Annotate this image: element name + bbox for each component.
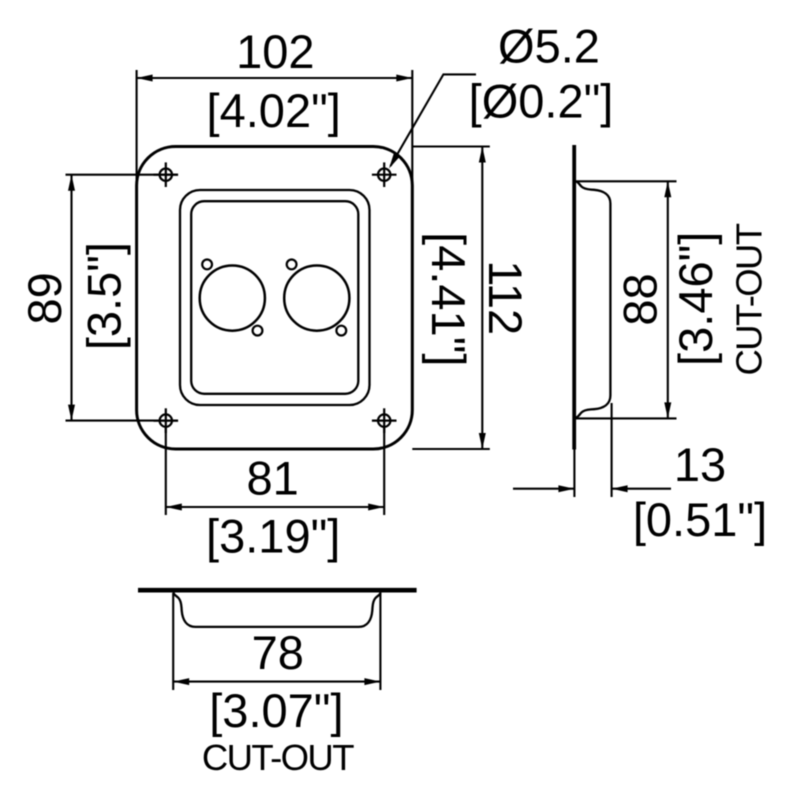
bottom view dish profile — [173, 593, 380, 627]
D-hole right small hole bottom-right — [336, 326, 346, 336]
leader arrow — [389, 153, 400, 169]
svg-text:88: 88 — [614, 273, 667, 325]
D-hole right — [284, 266, 349, 331]
svg-text:[3.46"]: [3.46"] — [669, 232, 722, 366]
svg-text:[4.41"]: [4.41"] — [422, 232, 475, 366]
dimension 81 arrow right — [368, 504, 384, 511]
dimension 78 extension line left — [172, 593, 174, 690]
dimension 89 extension line bottom — [66, 420, 179, 422]
screw hole top-right — [372, 162, 397, 187]
dimension 13 line right part — [612, 488, 671, 490]
svg-text:[Ø0.2"]: [Ø0.2"] — [469, 75, 614, 128]
dimension 13 line left part — [513, 488, 574, 490]
dimension 112 arrow top — [479, 147, 486, 163]
side view dish profile — [576, 182, 610, 418]
svg-text:CUT-OUT: CUT-OUT — [202, 737, 354, 778]
svg-text:102: 102 — [236, 25, 314, 78]
screw hole bottom-right — [372, 408, 397, 433]
D-hole left small hole top-left — [202, 260, 212, 270]
dimension 81 line — [166, 506, 384, 508]
side view flange line — [572, 145, 576, 450]
dimension 89 arrow top — [68, 175, 75, 191]
dimension 89 arrow bottom — [68, 405, 75, 421]
screw hole top-left — [154, 162, 179, 187]
dimension 78 arrow left — [173, 678, 189, 685]
dimension 88 extension line bottom — [576, 417, 677, 419]
dimension 102 arrow left — [137, 75, 153, 82]
svg-text:13: 13 — [674, 438, 726, 491]
dimension 13 extension line left — [573, 450, 575, 498]
svg-text:81: 81 — [247, 452, 299, 505]
dimension 89 line — [70, 175, 72, 421]
svg-text:78: 78 — [252, 626, 304, 679]
screw hole bottom-left — [154, 408, 179, 433]
dimension 81 extension line left — [165, 426, 167, 515]
svg-text:CUT-OUT: CUT-OUT — [729, 223, 770, 375]
recess inner rounded rectangle — [191, 201, 358, 394]
dimension 13 arrow right — [612, 485, 628, 492]
dimension 81 arrow left — [166, 504, 182, 511]
dimension 13 arrow left — [558, 485, 574, 492]
dimension 88 arrow top — [664, 181, 671, 197]
dimension 78 arrow right — [364, 678, 380, 685]
dimension 89 extension line top — [66, 174, 179, 176]
dimension 102 extension line left — [136, 70, 138, 200]
D-hole left small hole bottom-right — [253, 326, 263, 336]
dimension 88 arrow bottom — [664, 402, 671, 418]
svg-text:89: 89 — [18, 272, 71, 324]
svg-text:[3.5"]: [3.5"] — [78, 242, 131, 350]
leader line for hole diameter — [391, 74, 477, 166]
plate outline (front view) — [137, 147, 413, 450]
dimension 102 line — [137, 77, 413, 79]
svg-text:[3.19"]: [3.19"] — [206, 510, 340, 563]
svg-text:[3.07"]: [3.07"] — [209, 684, 343, 737]
dimension 78 line — [173, 681, 380, 683]
dimension 78 extension line right — [379, 593, 381, 690]
dimension 112 line — [481, 147, 483, 450]
svg-text:[4.02"]: [4.02"] — [207, 84, 341, 137]
D-hole right small hole top-left — [287, 260, 297, 270]
recess outer rounded rectangle — [180, 190, 370, 405]
svg-text:[0.51"]: [0.51"] — [633, 493, 767, 546]
dimension 112 extension line bottom — [412, 448, 490, 450]
dimension 88 extension line top — [576, 180, 677, 182]
dimension 88 line — [667, 181, 669, 418]
dimension 81 extension line right — [383, 426, 385, 515]
dimension 13 extension line right — [611, 403, 613, 497]
dimension 112 extension line top — [412, 145, 490, 147]
D-hole left — [200, 266, 265, 331]
dimension 112 arrow bottom — [479, 433, 486, 449]
svg-text:112: 112 — [479, 260, 532, 335]
svg-text:Ø5.2: Ø5.2 — [498, 20, 600, 73]
dimension 102 arrow right — [396, 75, 412, 82]
dimension 102 extension line right — [411, 70, 413, 200]
bottom view flange line — [138, 588, 417, 593]
